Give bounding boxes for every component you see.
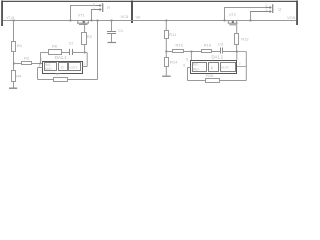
resistor R12 (VT2 drain) [235, 34, 250, 45]
net label VCC_M [6, 16, 14, 20]
node feedback/pin2 [39, 63, 41, 65]
wire R1 to R4 [13, 51, 15, 70]
svg-text:Q: Q [278, 7, 281, 12]
op-amp DA1.1 box [43, 55, 83, 74]
wire top feedback left [41, 53, 49, 64]
capacitor C1 to ground [107, 21, 124, 43]
pin 3 label DA1.1 [38, 64, 40, 68]
wire R11 to node [165, 39, 167, 58]
transistor VT1 [77, 21, 89, 33]
wire bus left (net VCC_M) [3, 20, 132, 22]
connector XP2 pin 2 arrow [266, 6, 271, 8]
svg-text:R25: R25 [206, 73, 214, 78]
wire bus to bottom feedback (pull) [97, 21, 99, 80]
node bus/R11 [165, 20, 167, 22]
resistor R2 (VT1 drain) [82, 33, 93, 45]
svg-text:DA1.1: DA1.1 [55, 55, 67, 60]
node bus/XP2 pin1 [250, 20, 252, 22]
pin 2 label XP1 [93, 3, 95, 7]
wire output riser DA1.1 [86, 53, 88, 67]
connector XP2 ref label [278, 7, 281, 12]
svg-text:OUT2: OUT2 [221, 66, 229, 70]
wire bottom feedback right (right half) [220, 80, 247, 82]
svg-text:R7: R7 [56, 72, 62, 77]
wire XP2 pin1 to bus [250, 12, 252, 21]
net label VC5 [121, 14, 130, 19]
connector XP2 body bar [272, 4, 273, 13]
svg-text:1: 1 [265, 8, 267, 12]
frame middle bar [131, 1, 133, 24]
pin 1 label XP1 [93, 7, 95, 11]
resistor R11 [165, 31, 178, 39]
wire R12 to feedback [236, 45, 238, 52]
svg-text:2: 2 [40, 58, 42, 62]
svg-text:R3: R3 [24, 55, 30, 60]
svg-text:VC5: VC5 [121, 14, 130, 19]
node bus/C1 [111, 20, 113, 22]
wire pin5 stub and riser [188, 68, 191, 81]
wire R15 to R16 [184, 51, 202, 53]
svg-text:R6: R6 [52, 44, 58, 49]
node feedback/pin6 [191, 51, 193, 53]
svg-text:VT2: VT2 [229, 13, 236, 17]
frame left bar [1, 1, 3, 27]
wire feedback node into DA1.2 corner [236, 52, 238, 61]
svg-text:R2: R2 [87, 34, 93, 39]
ground left [9, 81, 17, 88]
pin 1 label XP2 [265, 8, 267, 12]
svg-text:IN2+: IN2+ [193, 67, 200, 71]
op-amp DA1.1 gain block [59, 63, 68, 71]
resistor R6 (feedback) [49, 44, 62, 55]
svg-text:R16: R16 [204, 42, 212, 47]
svg-text:6: 6 [186, 58, 188, 62]
net label V0 [136, 14, 142, 19]
connector XP1 ref label [107, 5, 110, 10]
wire R2 to feedback node [84, 45, 86, 53]
node R12/feedback [236, 51, 238, 53]
node A junction bus/R1 [13, 20, 15, 22]
wire bus right (net VCN) [132, 20, 296, 22]
svg-text:IN1+: IN1+ [45, 67, 52, 71]
wire riser pin 6 [190, 52, 192, 61]
op-amp DA1.2 input block [193, 63, 207, 72]
resistor R4 [12, 71, 23, 82]
wire XP1 pin1 to bus [91, 10, 93, 21]
svg-text:C3: C3 [218, 42, 224, 47]
svg-text:D: D [211, 66, 214, 70]
wire node to R15 [166, 51, 172, 53]
svg-text:R1: R1 [17, 43, 23, 48]
node bus/pull [97, 20, 99, 22]
wire R16 to C3 [212, 51, 221, 53]
op-amp DA1.2 gain block [209, 63, 219, 72]
svg-text:1: 1 [83, 62, 85, 66]
connector XP1 pin 1 arrow [91, 8, 101, 10]
op-amp DA1.2 box [191, 55, 237, 74]
svg-text:R4: R4 [16, 74, 22, 79]
svg-text:IN2-: IN2- [193, 63, 199, 67]
wire output riser DA1.2 [245, 52, 247, 81]
node B junction divider [13, 63, 15, 65]
svg-text:1: 1 [93, 7, 95, 11]
svg-text:R12: R12 [241, 36, 249, 41]
svg-text:R15: R15 [176, 42, 184, 47]
frame top border line [2, 0, 297, 2]
op-amp DA1.2 output block [221, 63, 236, 72]
capacitor C3 (series feedback) [218, 42, 224, 54]
svg-text:VT1: VT1 [78, 14, 85, 18]
capacitor C2 label [69, 42, 74, 46]
pin 2 label DA1.1 [40, 58, 42, 62]
transistor VT2 label [229, 13, 236, 17]
resistor R25 (bottom feedback right half) [206, 73, 220, 82]
pin 1 label DA1.1 [83, 62, 85, 66]
wire pin1 output stub [83, 66, 88, 68]
wire bottom feedback left (right half) [188, 80, 206, 82]
wire pin7 output stub [237, 66, 246, 68]
wire C3 to output riser [223, 51, 247, 53]
wire bottom feedback left [38, 79, 54, 81]
svg-text:R14: R14 [170, 60, 178, 65]
node bus/XP1 [70, 20, 72, 22]
op-amp DA1.1 output block [69, 63, 81, 71]
ground right [162, 67, 171, 77]
connector XP2 pin 1 arrow [250, 10, 271, 12]
resistor R15 [173, 42, 184, 52]
pin 5 label DA1.2 [183, 63, 185, 67]
svg-text:D: D [61, 66, 64, 70]
resistor R14 [165, 58, 179, 67]
connector XP1 body bar [102, 3, 103, 12]
transistor VT2 [228, 21, 238, 34]
pin 2 label XP2 [265, 4, 267, 8]
node divider right [165, 51, 167, 53]
svg-text:V0: V0 [136, 14, 142, 19]
op-amp DA1.1 input block [45, 63, 57, 71]
svg-text:R11: R11 [169, 32, 177, 37]
pin 6 label DA1.2 [186, 58, 188, 62]
wire R6 to C2 [62, 52, 70, 54]
svg-text:DA1.2: DA1.2 [212, 55, 224, 60]
svg-text:R: R [107, 5, 110, 10]
svg-text:7: 7 [239, 62, 241, 66]
wire pin3 stub and riser [38, 68, 43, 80]
resistor R3 [14, 55, 43, 64]
resistor R1 [12, 42, 23, 52]
transistor VT1 label [78, 14, 85, 18]
capacitor C2 (series feedback) [70, 49, 73, 55]
svg-text:5: 5 [183, 63, 185, 67]
pin 7 label DA1.2 [239, 62, 241, 66]
resistor R16 [202, 42, 212, 52]
frame right bar [296, 1, 298, 26]
resistor R7 (bottom feedback) [54, 72, 68, 82]
wire connector XP1 top feed [70, 6, 96, 21]
svg-text:VT_M: VT_M [6, 16, 14, 20]
wire bus to R11 [165, 21, 167, 31]
svg-text:C2: C2 [69, 42, 74, 46]
svg-text:C1: C1 [118, 28, 124, 33]
net label VCN [287, 15, 296, 20]
node R2/feedback [84, 52, 86, 54]
connector XP1 pin 2 arrow [96, 4, 102, 6]
node bus/pin1 [91, 20, 93, 22]
wire bus to R1 [13, 21, 15, 42]
wire C2 to output riser [73, 52, 88, 54]
svg-text:OUT1: OUT1 [70, 65, 78, 69]
wire connector XP2 top feed [224, 8, 266, 21]
svg-text:VCN: VCN [287, 15, 296, 20]
wire bottom feedback right [67, 79, 98, 81]
node bus/XP2 [224, 20, 226, 22]
